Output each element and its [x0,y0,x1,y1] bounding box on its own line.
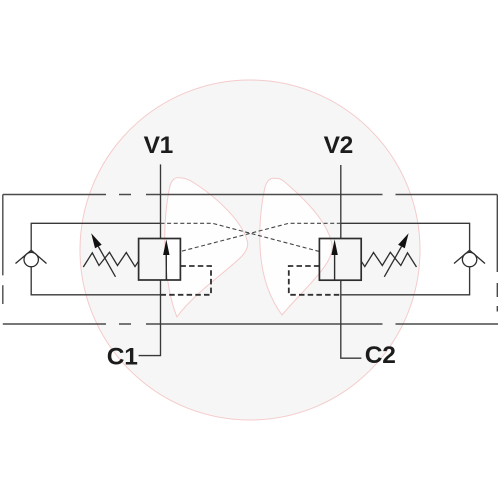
pilot drain loop: left valve (dashed) [161,266,212,295]
check valve (right) [454,250,485,267]
counterbalance valve body (left) [139,239,181,281]
svg-text:C2: C2 [365,342,396,369]
wire: port V2 line with C2 leader [341,165,362,358]
watermark right petal [260,178,332,315]
wire: port V1 line with C1 leader [139,164,161,355]
enclosure border left [2,195,4,305]
flow arrow inside left valve [163,239,169,279]
counterbalance valve body (right) [319,239,361,281]
svg-text:V2: V2 [324,132,353,159]
watermark circle [80,80,420,420]
check valve (left) [16,250,47,267]
adjustment arrow (left spring) [91,233,115,276]
adjustment arrow (right spring) [384,233,408,276]
flow arrow inside right valve [331,239,337,280]
watermark left petal [165,178,248,317]
wire: right check-valve loop [341,223,470,294]
enclosure border right [496,195,498,312]
adjustable spring (right valve) [361,252,416,267]
pilot drain loop: right valve (dashed) [289,266,341,295]
svg-text:C1: C1 [107,343,138,370]
adjustable spring (left valve) [83,252,138,267]
svg-text:V1: V1 [144,132,173,159]
enclosure border top [3,194,498,196]
pilot line: V2 side to left valve (dashed) [180,223,340,251]
wire: left check-valve loop [31,223,160,294]
pilot line: V1 side to right valve (dashed) [161,223,320,251]
enclosure border bottom [3,323,498,325]
